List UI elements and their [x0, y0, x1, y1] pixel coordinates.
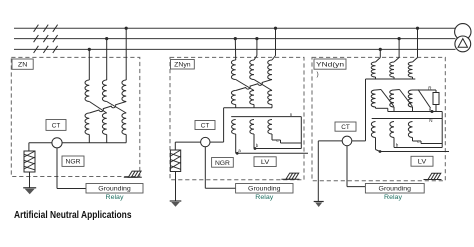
svg-text:Relay: Relay	[106, 194, 125, 201]
svg-text:CT: CT	[201, 122, 210, 129]
svg-text:Artificial Neutral Application: Artificial Neutral Applications	[14, 209, 132, 221]
svg-text:LV: LV	[261, 159, 270, 166]
svg-text:NGR: NGR	[215, 160, 230, 167]
svg-text:CT: CT	[52, 122, 61, 129]
svg-text:CT: CT	[341, 124, 350, 131]
svg-text:NGR: NGR	[66, 159, 81, 166]
svg-text:N: N	[429, 118, 432, 123]
svg-text:YNd(yn: YNd(yn	[316, 62, 344, 69]
svg-text:): )	[317, 71, 319, 78]
svg-text:Grounding: Grounding	[379, 186, 412, 193]
svg-text:Relay: Relay	[255, 194, 274, 201]
svg-text:Grounding: Grounding	[248, 186, 281, 193]
svg-text:Grounding: Grounding	[98, 186, 131, 193]
svg-text:ZN: ZN	[18, 62, 28, 69]
svg-text:LV: LV	[418, 159, 427, 166]
svg-text:ZNyn: ZNyn	[174, 62, 191, 69]
svg-text:Relay: Relay	[384, 194, 403, 201]
